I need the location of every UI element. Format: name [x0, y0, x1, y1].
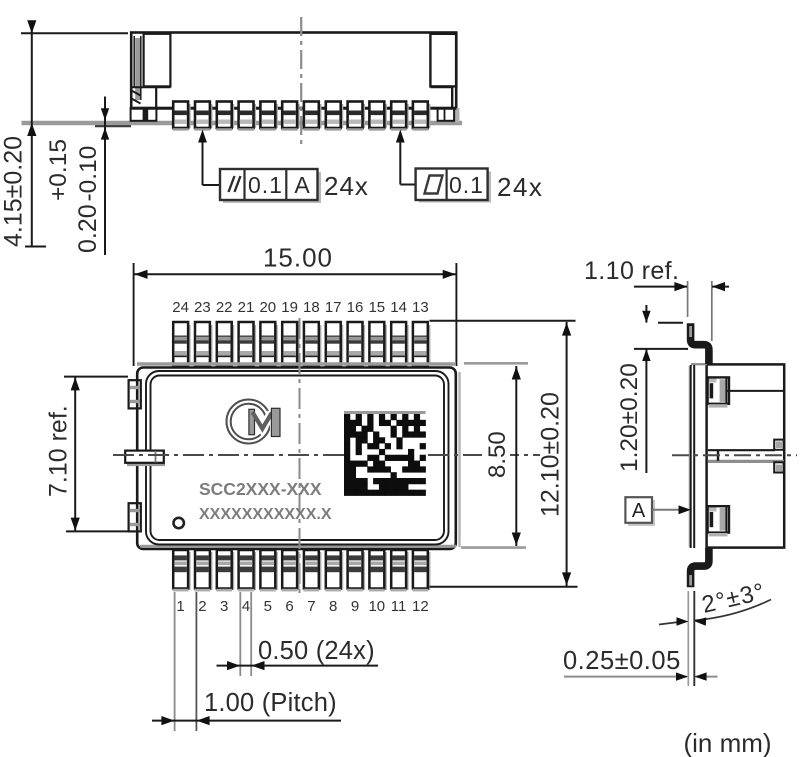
dimension text 1.20&#177;0.20 (rotated): [616, 363, 643, 472]
top view: lid outline (outer seam): [146, 371, 449, 545]
dimension 1.20&#177;0.20 : dimension line with outside arrows: [642, 305, 650, 473]
front view: left flange clip detail: [131, 34, 171, 108]
svg-text:22: 22: [216, 299, 233, 316]
lead 17 (front view): [325, 102, 343, 131]
svg-text:1: 1: [176, 598, 184, 615]
svg-text:15.00: 15.00: [263, 243, 333, 273]
front view: right mounting foot: [438, 108, 460, 123]
dimension text 1.00 (Pitch): [204, 689, 337, 717]
svg-text:0.20: 0.20: [74, 204, 102, 253]
svg-text:0.1: 0.1: [248, 172, 283, 198]
count label 24x (parallelism): [324, 171, 369, 201]
top view: vertical centerline: [299, 318, 301, 594]
2D data matrix code: [344, 411, 426, 496]
svg-text:3: 3: [220, 598, 228, 615]
Murata logo: circle: [227, 400, 271, 444]
svg-text:A: A: [294, 172, 310, 198]
seating plane line (gray): [22, 121, 463, 125]
lead 2 (top view, lower row): [194, 550, 212, 591]
lead tip extension lines (bracket thickness): [688, 591, 694, 686]
svg-text:6: 6: [285, 598, 293, 615]
marking text line 2: XXXXXXXXXXX.X: [199, 506, 332, 523]
front view: right flange clip detail: [430, 34, 456, 108]
lead 16 (top view, upper row): [348, 322, 365, 366]
lead 23 (top view, upper row): [195, 322, 212, 366]
front view: left mounting foot: [131, 108, 157, 121]
feature control frame: flatness 0.1: [416, 169, 491, 203]
svg-text:0.50 (24x): 0.50 (24x): [258, 637, 375, 665]
side view: bracket bottom Z-bend: [691, 548, 709, 587]
svg-text:21: 21: [238, 299, 255, 316]
dimension 8.50 : dimension line: [512, 366, 521, 546]
dimension 7.10 ref. : dimension line: [71, 377, 80, 531]
dimension 0.50 (24x) : extension lines from lead 4: [240, 592, 251, 676]
lead 21 (top view, upper row): [239, 322, 256, 366]
Murata logo: letter M: [247, 407, 281, 438]
top view: body right gray shadow: [458, 372, 460, 547]
svg-text:17: 17: [325, 299, 342, 316]
svg-text:10: 10: [368, 598, 385, 615]
svg-text:8.50: 8.50: [484, 431, 511, 478]
svg-text:0.25±0.05: 0.25±0.05: [563, 647, 681, 675]
top view: center mounting tab: [125, 451, 165, 467]
lead 14 (top view, upper row): [391, 322, 408, 366]
lead 23 (front view): [194, 102, 212, 131]
top view: upper-left clip bump: [129, 380, 141, 408]
dimension text 0.50 (24x): [258, 637, 375, 665]
dimension text +0.15 (rotated): [45, 139, 72, 201]
dimension 0.25&#177;0.05 : dimension line with outside arrows: [564, 672, 718, 680]
dimension 15.00 : extension lines: [134, 263, 457, 366]
units note (in mm): [684, 728, 772, 757]
count label 24x (flatness): [497, 172, 543, 202]
lead 9 (top view, lower row): [347, 550, 365, 591]
svg-text:4: 4: [242, 598, 250, 615]
svg-text:12.10±0.20: 12.10±0.20: [537, 392, 565, 517]
lead 14 (front view): [391, 102, 409, 131]
side view: horizontal centerline: [672, 454, 797, 456]
svg-text:24x: 24x: [324, 171, 369, 201]
lead 13 (top view, upper row): [413, 322, 431, 366]
dimension 1.10 ref. : extension lines: [688, 281, 712, 341]
leader to lead 14 (flatness callout): [396, 130, 416, 185]
dimension text 0.25&#177;0.05: [563, 647, 681, 675]
dimension text 1.10 ref.: [584, 257, 679, 285]
feature control frame: parallelism // 0.1 A: [220, 169, 321, 203]
angular dimension 2&#176;&#177;3&#176;: [659, 600, 771, 626]
svg-text:14: 14: [390, 299, 407, 316]
bottom pin numbers 1..12: [176, 598, 428, 615]
dimension 0.50 (24x) : dimension line with outside arrows: [217, 661, 379, 670]
dimension 0.20 +0.15/-0.10 : extension line (lead underside): [95, 125, 131, 127]
svg-text:9: 9: [351, 598, 359, 615]
svg-text:24: 24: [172, 299, 189, 316]
svg-text:15: 15: [368, 299, 385, 316]
lead 17 (top view, upper row): [326, 322, 343, 366]
side view: body block: [707, 364, 785, 547]
lead 15 (top view, upper row): [369, 322, 386, 366]
svg-text:-0.10: -0.10: [75, 146, 102, 202]
dimension 7.10 ref. : extension lines: [64, 377, 128, 532]
lead 6 (top view, lower row): [282, 550, 300, 591]
lead 24 (front view): [173, 102, 191, 131]
svg-text:2: 2: [198, 598, 206, 615]
dimension 8.50 : extension lines (gray): [461, 363, 528, 547]
svg-text:7: 7: [307, 598, 315, 615]
lead 20 (front view): [260, 102, 278, 131]
dimension 1.00 (Pitch) : extension lines from leads 1-2: [175, 592, 197, 731]
svg-text:23: 23: [194, 299, 211, 316]
lead 22 (top view, upper row): [217, 322, 234, 366]
front view: package body outline: [131, 33, 456, 109]
top view: package body outline: [137, 368, 456, 550]
svg-text:1.10 ref.: 1.10 ref.: [584, 257, 679, 285]
lead 12 (top view, lower row): [412, 550, 430, 591]
dimension 4.15&#177;0.20 : dimension line with outside arrows: [25, 20, 46, 246]
side view: bracket top Z-bend: [691, 323, 709, 364]
lead 19 (front view): [282, 102, 300, 131]
top view: horizontal centerline: [113, 454, 540, 456]
lead 5 (top view, lower row): [260, 550, 278, 591]
svg-text:A: A: [632, 500, 646, 522]
lead 8 (top view, lower row): [325, 550, 343, 591]
svg-text:16: 16: [347, 299, 364, 316]
svg-text:1.20±0.20: 1.20±0.20: [616, 363, 643, 472]
dimension text 12.10&#177;0.20 (rotated): [537, 392, 565, 517]
side view: center tab (through-body): [708, 450, 784, 461]
svg-text:+0.15: +0.15: [45, 139, 72, 201]
lead 4 (top view, lower row): [238, 550, 256, 591]
lead 19 (top view, upper row): [282, 322, 299, 366]
side view: right edge tab clips: [774, 440, 783, 473]
svg-text:SCC2XXX-XXX: SCC2XXX-XXX: [199, 479, 322, 499]
dimension 0.20 +0.15/-0.10 : dimension line with outside arrows: [101, 97, 109, 256]
top view: lower-left clip bump: [129, 503, 141, 531]
side view: body step line: [727, 390, 784, 392]
top view: body bottom gray shadow: [140, 545, 456, 548]
svg-text:1.00 (Pitch): 1.00 (Pitch): [204, 689, 337, 717]
lead 18 (top view, upper row): [304, 322, 322, 366]
dimension text 7.10 ref. (rotated): [45, 405, 73, 497]
svg-text:20: 20: [259, 299, 276, 316]
dimension 1.00 (Pitch) : dimension line with outside arrows: [152, 716, 341, 725]
lead 3 (top view, lower row): [216, 550, 234, 591]
svg-text:XXXXXXXXXXX.X: XXXXXXXXXXX.X: [199, 506, 332, 523]
dimension 12.10&#177;0.20 : extension lines: [430, 321, 578, 587]
lead 20 (top view, upper row): [260, 322, 277, 366]
lead 15 (front view): [369, 102, 387, 131]
svg-text:5: 5: [264, 598, 272, 615]
lead 10 (top view, lower row): [369, 550, 387, 591]
dimension 15.00 : dimension line: [134, 270, 456, 279]
lead 24 (top view, upper row): [173, 322, 190, 366]
svg-text:(in mm): (in mm): [684, 728, 772, 757]
top pin numbers 24..13: [172, 299, 428, 316]
svg-text:4.15±0.20: 4.15±0.20: [0, 136, 28, 247]
svg-text:12: 12: [412, 598, 429, 615]
lead 21 (front view): [238, 102, 256, 131]
lead 22 (front view): [216, 102, 234, 131]
dimension text 15.00: [263, 243, 333, 273]
dimension 1.20&#177;0.20 : extension lines: [634, 323, 688, 349]
svg-text:7.10 ref.: 7.10 ref.: [45, 405, 73, 497]
side view: upper gull-wing lead (end-on): [708, 377, 729, 407]
svg-text:19: 19: [281, 299, 298, 316]
lead 13 (front view): [412, 102, 430, 131]
leader to lead 23 (parallelism callout): [198, 130, 220, 186]
lead 1 (top view, lower row): [173, 550, 191, 591]
dimension 1.10 ref. : dimension line with outside arrows: [634, 282, 729, 291]
front view: vertical centerline: [300, 17, 302, 148]
side view: body top edge continuation over bracket: [691, 363, 707, 365]
lead 18 (front view): [303, 102, 321, 131]
lead 16 (front view): [347, 102, 365, 131]
svg-text:0.1: 0.1: [449, 172, 484, 198]
svg-text:13: 13: [412, 299, 429, 316]
front view: body bottom edge: [131, 107, 457, 110]
svg-text:8: 8: [329, 598, 337, 615]
pin 1 index dot: [174, 518, 184, 528]
top view: lid outline (inner seam): [151, 376, 445, 541]
svg-text:24x: 24x: [497, 172, 543, 202]
svg-text:11: 11: [391, 598, 407, 615]
svg-text:18: 18: [303, 299, 320, 316]
datum feature symbol A: [625, 497, 691, 526]
dimension text 4.15&#177;0.20 (rotated): [0, 136, 28, 247]
dimension text 0.20 -0.10 (rotated): [74, 146, 102, 253]
dimension text 2&#176;&#177;3&#176; (rotated): [699, 578, 767, 619]
dimension text 8.50 (rotated): [482, 424, 511, 482]
side view: lower gull-wing lead (end-on): [708, 506, 729, 536]
dimension 4.15&#177;0.20 : extension line (top of body): [21, 32, 128, 34]
side view: bracket face (edge-on): [689, 365, 694, 548]
dimension 12.10&#177;0.20 : dimension line: [562, 322, 571, 586]
top view: body top edge gray shadow: [137, 362, 456, 365]
lead 11 (top view, lower row): [391, 550, 409, 591]
marking text line 1: SCC2XXX-XXX: [199, 479, 322, 499]
lead 7 (top view, lower row): [303, 550, 321, 591]
